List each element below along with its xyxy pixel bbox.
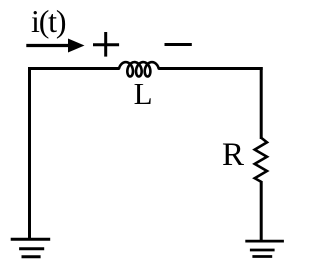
minus sign <box>165 43 192 46</box>
ground right <box>245 241 284 256</box>
label L <box>134 78 153 109</box>
label R <box>222 139 244 172</box>
inductor L coil <box>119 62 159 76</box>
current arrow i(t) <box>26 39 84 53</box>
label i(t) <box>31 5 65 37</box>
ground left <box>11 239 51 257</box>
plus sign <box>93 32 119 57</box>
wire left vertical <box>28 67 31 239</box>
resistor R zigzag <box>255 138 267 182</box>
wire right vertical upper <box>260 67 263 139</box>
wire top horizontal right segment <box>159 67 263 70</box>
wire top horizontal left segment <box>28 67 119 70</box>
wire right vertical lower <box>260 181 263 241</box>
